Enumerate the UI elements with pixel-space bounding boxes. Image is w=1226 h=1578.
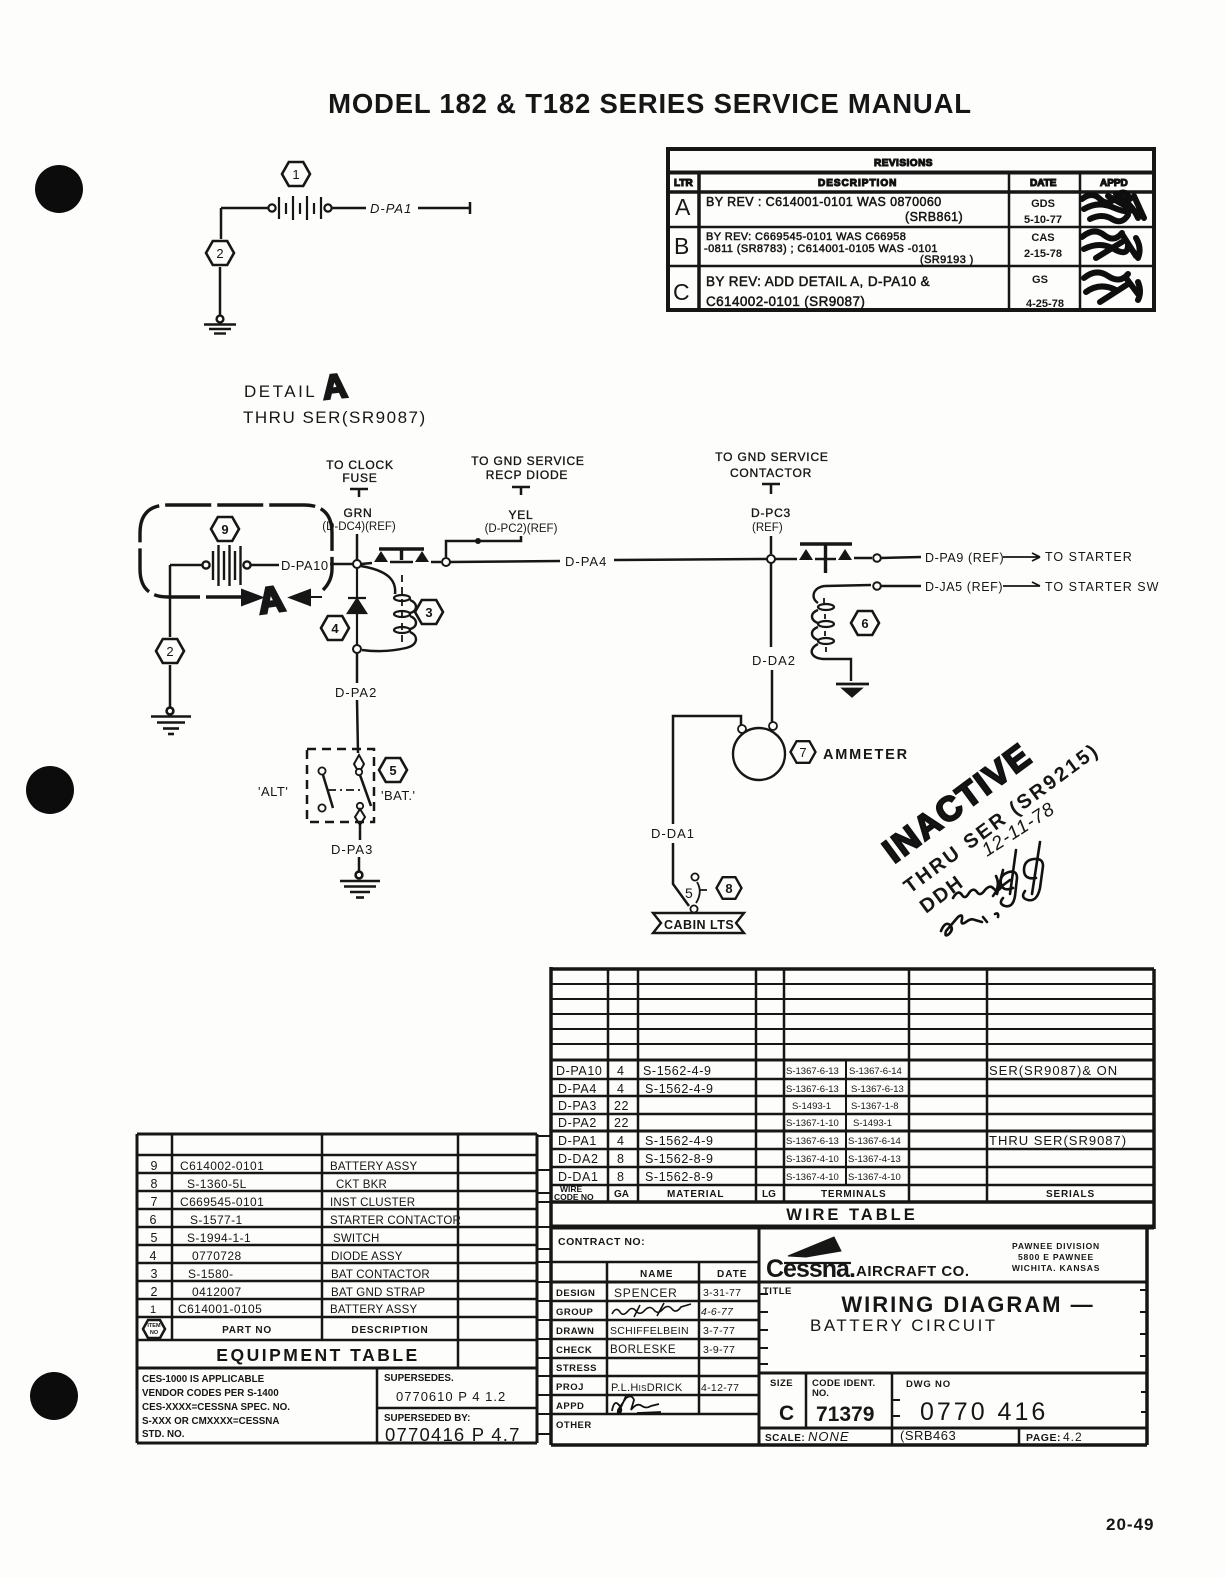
diode assy item 4 xyxy=(348,568,366,645)
svg-text:B: B xyxy=(674,233,689,259)
svg-text:TO STARTER: TO STARTER xyxy=(1045,550,1133,564)
svg-text:(SR9193 ): (SR9193 ) xyxy=(920,254,974,266)
svg-text:TITLE: TITLE xyxy=(763,1286,792,1297)
svg-text:S-1367-1-8: S-1367-1-8 xyxy=(851,1101,899,1112)
ground (switch) xyxy=(340,872,380,898)
wire D-PA4 xyxy=(450,559,767,562)
svg-text:D-DA2: D-DA2 xyxy=(558,1152,599,1166)
item flag 8 xyxy=(717,877,742,899)
node junction D-PA10/D-PA4 xyxy=(353,560,361,568)
svg-text:DWG NO: DWG NO xyxy=(906,1379,951,1390)
svg-text:ITEM: ITEM xyxy=(147,1323,161,1329)
svg-text:71379: 71379 xyxy=(816,1403,874,1426)
svg-text:BY REV : C614001-0101 WAS 08: BY REV : C614001-0101 WAS 0870060 xyxy=(706,195,942,209)
item flag 4 xyxy=(321,616,349,640)
svg-text:9: 9 xyxy=(151,1159,158,1173)
svg-text:C614002-0101 (SR9087): C614002-0101 (SR9087) xyxy=(706,294,865,309)
svg-text:5800 E PAWNEE: 5800 E PAWNEE xyxy=(1018,1252,1094,1262)
wire D-PA2 xyxy=(357,653,358,753)
svg-text:1: 1 xyxy=(292,167,299,182)
svg-text:D-PA3: D-PA3 xyxy=(558,1099,597,1113)
wire ammeter to D-DA1 xyxy=(673,716,741,906)
svg-text:-0811 (SR8783) ; C614001-0105: -0811 (SR8783) ; C614001-0105 WAS -0101 xyxy=(704,243,938,255)
battery assy item 9 xyxy=(202,545,250,586)
svg-text:1: 1 xyxy=(150,1304,156,1316)
starter coil xyxy=(814,586,825,603)
svg-text:C: C xyxy=(673,279,690,305)
svg-text:2: 2 xyxy=(166,644,173,659)
svg-text:4: 4 xyxy=(617,1064,625,1078)
svg-text:A: A xyxy=(675,194,691,220)
equipment header xyxy=(222,1325,429,1336)
svg-text:MATERIAL: MATERIAL xyxy=(667,1189,724,1200)
wire D-DA2 xyxy=(771,563,772,722)
svg-text:S-1367-4-13: S-1367-4-13 xyxy=(848,1154,901,1165)
svg-text:FUSE: FUSE xyxy=(342,471,377,485)
svg-text:(REF): (REF) xyxy=(752,522,783,534)
svg-text:DRAWN: DRAWN xyxy=(556,1326,594,1337)
punch hole bottom xyxy=(30,1372,78,1420)
svg-text:CODE NO: CODE NO xyxy=(554,1192,594,1202)
svg-text:CES-XXXX=CESSNA SPEC. NO.: CES-XXXX=CESSNA SPEC. NO. xyxy=(142,1402,290,1413)
wire table header row xyxy=(554,1184,594,1202)
svg-text:OTHER: OTHER xyxy=(556,1420,592,1431)
svg-text:CES-1000 IS APPLICABLE: CES-1000 IS APPLICABLE xyxy=(142,1374,265,1385)
svg-text:GDS: GDS xyxy=(1031,198,1055,210)
ground (top-left) xyxy=(204,316,236,334)
svg-text:CKT BKR: CKT BKR xyxy=(336,1179,387,1191)
svg-text:8: 8 xyxy=(617,1170,625,1184)
svg-text:SCHIFFELBEIN: SCHIFFELBEIN xyxy=(610,1325,689,1337)
svg-text:9: 9 xyxy=(221,522,228,537)
svg-text:DATE: DATE xyxy=(1030,178,1057,189)
svg-text:2: 2 xyxy=(216,246,223,261)
node D-PA4/D-DA2 junction xyxy=(767,555,775,563)
wire down to flag 2b xyxy=(169,565,172,637)
svg-text:D-PA4: D-PA4 xyxy=(558,1082,597,1096)
svg-text:INST CLUSTER: INST CLUSTER xyxy=(330,1197,415,1209)
ammeter xyxy=(733,728,785,780)
svg-text:BAT CONTACTOR: BAT CONTACTOR xyxy=(331,1269,430,1281)
svg-text:0412007: 0412007 xyxy=(192,1285,242,1299)
svg-text:D-PA4: D-PA4 xyxy=(565,554,607,569)
wire D-JA5 xyxy=(881,585,921,588)
svg-text:GRN: GRN xyxy=(343,506,372,520)
svg-text:S-1493-1: S-1493-1 xyxy=(853,1118,892,1129)
svg-text:SUPERSEDES.: SUPERSEDES. xyxy=(384,1373,454,1384)
stamp date 12-11-78 xyxy=(978,799,1059,862)
wire flag2 to ground xyxy=(219,267,222,316)
svg-text:Cessna.: Cessna. xyxy=(766,1255,855,1283)
item flag 6 xyxy=(851,611,879,635)
svg-text:D-PA10: D-PA10 xyxy=(281,558,329,573)
node cabin terminal xyxy=(690,905,697,912)
appd scribbles xyxy=(1082,192,1144,302)
wire corner down to flag 2 xyxy=(220,208,223,239)
svg-text:S-1367-6-13: S-1367-6-13 xyxy=(786,1136,839,1147)
svg-text:8: 8 xyxy=(725,881,732,896)
svg-text:S-XXX OR CMXXXX=CESSNA: S-XXX OR CMXXXX=CESSNA xyxy=(142,1416,279,1427)
name table labels xyxy=(556,1288,597,1431)
svg-text:S-1367-6-13: S-1367-6-13 xyxy=(851,1084,904,1095)
detail boundary dashed box xyxy=(140,505,332,597)
svg-text:D-PA1: D-PA1 xyxy=(558,1134,597,1148)
svg-text:5-10-77: 5-10-77 xyxy=(1024,214,1062,226)
svg-text:22: 22 xyxy=(614,1116,629,1130)
svg-text:S-1562-8-9: S-1562-8-9 xyxy=(645,1170,714,1184)
svg-text:DESIGN: DESIGN xyxy=(556,1288,595,1299)
svg-text:CHECK: CHECK xyxy=(556,1345,592,1356)
svg-text:3-7-77: 3-7-77 xyxy=(703,1325,735,1337)
Cessna logo xyxy=(766,1237,855,1283)
date entries xyxy=(701,1287,741,1394)
svg-text:P.L.HISDRICK: P.L.HISDRICK xyxy=(611,1382,683,1394)
svg-text:6: 6 xyxy=(150,1213,157,1227)
svg-text:GA: GA xyxy=(614,1189,629,1200)
svg-text:STRESS: STRESS xyxy=(556,1363,597,1374)
svg-text:BATTERY ASSY: BATTERY ASSY xyxy=(330,1304,418,1316)
svg-text:S-1562-8-9: S-1562-8-9 xyxy=(645,1152,714,1166)
detail marker arrow right xyxy=(218,590,262,605)
svg-text:C: C xyxy=(779,1402,794,1425)
svg-text:YEL: YEL xyxy=(508,508,533,522)
svg-text:D-PA3: D-PA3 xyxy=(331,842,373,857)
svg-text:S-1493-1: S-1493-1 xyxy=(792,1101,831,1112)
svg-text:4-6-77: 4-6-77 xyxy=(701,1306,734,1318)
starter contactor arrow right xyxy=(838,549,852,560)
svg-text:6: 6 xyxy=(861,616,868,631)
stamp signatures xyxy=(941,842,1043,935)
svg-text:BATTERY CIRCUIT: BATTERY CIRCUIT xyxy=(810,1316,998,1335)
svg-text:MODEL 182 & T182 SERIES SERVIC: MODEL 182 & T182 SERIES SERVICE MANUAL xyxy=(328,88,972,119)
switch link dash-dot xyxy=(328,789,362,791)
svg-text:AIRCRAFT CO.: AIRCRAFT CO. xyxy=(856,1263,970,1280)
svg-text:CAS: CAS xyxy=(1031,232,1054,244)
svg-text:NO.: NO. xyxy=(812,1388,829,1399)
svg-text:BY REV: ADD DETAIL A, D-PA10: BY REV: ADD DETAIL A, D-PA10 & xyxy=(706,274,930,289)
svg-text:WICHITA. KANSAS: WICHITA. KANSAS xyxy=(1012,1263,1100,1273)
terminal 5 marker xyxy=(691,873,698,880)
switch left pole contacts xyxy=(318,767,325,774)
svg-text:0770416 P 4.7: 0770416 P 4.7 xyxy=(385,1424,521,1445)
svg-text:STD. NO.: STD. NO. xyxy=(142,1429,185,1440)
punch hole top xyxy=(35,165,83,213)
svg-text:D-PA10: D-PA10 xyxy=(556,1064,602,1078)
item flag 2b xyxy=(156,639,184,663)
svg-text:S-1367-6-13: S-1367-6-13 xyxy=(786,1066,839,1077)
svg-text:PAWNEE DIVISION: PAWNEE DIVISION xyxy=(1012,1241,1100,1251)
svg-text:THRU SER(SR9087): THRU SER(SR9087) xyxy=(243,408,427,427)
svg-text:4.2: 4.2 xyxy=(1063,1430,1083,1444)
svg-text:S-1562-4-9: S-1562-4-9 xyxy=(643,1064,712,1078)
svg-text:WIRING DIAGRAM —: WIRING DIAGRAM — xyxy=(841,1292,1094,1317)
wire GRN down to junction xyxy=(356,534,359,560)
clock fuse tail xyxy=(350,489,368,497)
item flag 2 xyxy=(206,241,234,265)
svg-text:8: 8 xyxy=(151,1177,158,1191)
svg-text:LTR: LTR xyxy=(674,178,693,189)
svg-text:SER(SR9087)& ON: SER(SR9087)& ON xyxy=(989,1063,1118,1078)
svg-text:TO STARTER SW: TO STARTER SW xyxy=(1045,580,1159,594)
vendor notes xyxy=(142,1374,290,1440)
wire junction to starter contactor xyxy=(775,558,872,559)
svg-text:TO GND SERVICE: TO GND SERVICE xyxy=(715,450,828,464)
battery assy item 1 xyxy=(268,196,331,220)
svg-text:0770 416: 0770 416 xyxy=(920,1398,1048,1426)
svg-text:D-PA2: D-PA2 xyxy=(558,1116,597,1130)
wire D-PA3 xyxy=(359,825,360,871)
starter contactor arrow left xyxy=(799,549,813,560)
appd signature xyxy=(612,1396,661,1414)
svg-text:WIRE TABLE: WIRE TABLE xyxy=(786,1206,917,1224)
svg-text:SCALE:: SCALE: xyxy=(765,1433,805,1444)
cabin lts banner xyxy=(653,913,744,933)
svg-text:NAME: NAME xyxy=(640,1269,673,1280)
svg-text:TO GND SERVICE: TO GND SERVICE xyxy=(471,454,584,468)
svg-text:GS: GS xyxy=(1032,274,1048,286)
bat contactor coil xyxy=(361,566,395,594)
svg-text:D-DA2: D-DA2 xyxy=(752,653,796,668)
item flag 7 xyxy=(791,741,816,763)
svg-text:TO CLOCK: TO CLOCK xyxy=(326,458,394,472)
wire junction to contactor xyxy=(361,562,441,564)
svg-text:A: A xyxy=(256,578,287,622)
svg-text:A: A xyxy=(321,367,349,407)
stamp thru ser xyxy=(900,739,1104,898)
svg-text:4: 4 xyxy=(617,1082,625,1096)
svg-text:C614002-0101: C614002-0101 xyxy=(180,1159,264,1173)
svg-text:D-DA1: D-DA1 xyxy=(558,1170,599,1184)
wire D-PA1 xyxy=(332,202,470,214)
svg-text:DETAIL: DETAIL xyxy=(244,382,317,401)
wire D-PC3 down to junction xyxy=(770,536,773,554)
svg-text:(D-PC2)(REF): (D-PC2)(REF) xyxy=(485,523,558,535)
item flag 5 xyxy=(379,758,407,782)
svg-text:(SRB861): (SRB861) xyxy=(905,210,963,224)
svg-text:BORLESKE: BORLESKE xyxy=(610,1344,676,1356)
svg-text:4: 4 xyxy=(617,1134,625,1148)
node contactor output xyxy=(442,558,450,566)
svg-text:APPD: APPD xyxy=(556,1401,584,1412)
svg-text:S-1367-4-10: S-1367-4-10 xyxy=(786,1154,839,1165)
item flag 1 xyxy=(282,162,310,186)
gnd service contactor tail xyxy=(762,484,780,494)
svg-text:S-1994-1-1: S-1994-1-1 xyxy=(187,1231,251,1245)
wire D-JA5 from coil top xyxy=(825,585,871,586)
svg-text:0770610 P 4 1.2: 0770610 P 4 1.2 xyxy=(396,1389,506,1404)
node bottom junction xyxy=(353,645,361,653)
svg-text:S-1367-1-10: S-1367-1-10 xyxy=(786,1118,839,1129)
svg-text:8: 8 xyxy=(617,1152,625,1166)
svg-text:D-PA9 (REF): D-PA9 (REF) xyxy=(925,551,1004,565)
svg-text:D-PC3: D-PC3 xyxy=(751,506,791,520)
stamp DDH xyxy=(916,871,969,918)
svg-text:4-25-78: 4-25-78 xyxy=(1026,298,1064,310)
starter contactor bar xyxy=(800,544,852,573)
svg-text:D-PA1: D-PA1 xyxy=(370,201,412,216)
junction dot on YEL jog xyxy=(475,538,481,544)
item flag 9 xyxy=(211,517,239,541)
svg-text:BAT GND STRAP: BAT GND STRAP xyxy=(331,1287,425,1299)
svg-text:S-1562-4-9: S-1562-4-9 xyxy=(645,1134,714,1148)
svg-text:REVISIONS: REVISIONS xyxy=(874,158,933,169)
svg-text:3: 3 xyxy=(425,605,432,620)
svg-text:S-1360-5L: S-1360-5L xyxy=(187,1177,247,1191)
bat contactor arrow right xyxy=(415,551,429,562)
svg-text:5: 5 xyxy=(389,763,396,778)
svg-text:3: 3 xyxy=(151,1267,158,1281)
svg-text:4-12-77: 4-12-77 xyxy=(701,1382,739,1394)
svg-text:S-1580-: S-1580- xyxy=(188,1267,234,1281)
wire battery9 right to junction xyxy=(251,564,353,565)
svg-text:5: 5 xyxy=(685,885,693,901)
switch left blade xyxy=(323,775,333,808)
pawnee division xyxy=(1012,1241,1100,1273)
switch blade right xyxy=(360,775,371,806)
svg-text:'BAT.': 'BAT.' xyxy=(381,788,415,803)
svg-text:SUPERSEDED BY:: SUPERSEDED BY: xyxy=(384,1413,470,1424)
svg-text:DESCRIPTION: DESCRIPTION xyxy=(351,1325,428,1336)
svg-text:'ALT': 'ALT' xyxy=(258,784,288,799)
switch dashed box xyxy=(307,749,374,822)
svg-text:C614001-0105: C614001-0105 xyxy=(178,1302,262,1316)
ground (starter coil) xyxy=(836,684,869,696)
svg-text:3-31-77: 3-31-77 xyxy=(703,1287,741,1299)
switch bottom terminal xyxy=(357,803,363,809)
bat contactor arrow left xyxy=(374,551,388,562)
svg-text:7: 7 xyxy=(799,745,806,760)
wire battery9 left xyxy=(170,564,202,567)
svg-text:NONE: NONE xyxy=(808,1429,850,1444)
bat contactor bar xyxy=(379,549,424,560)
svg-text:AMMETER: AMMETER xyxy=(823,747,909,763)
svg-text:APPD: APPD xyxy=(1100,178,1128,189)
svg-text:GROUP: GROUP xyxy=(556,1307,594,1318)
svg-text:DESCRIPTION: DESCRIPTION xyxy=(818,178,897,189)
svg-text:5: 5 xyxy=(151,1231,158,1245)
equipment table items xyxy=(150,1159,158,1316)
svg-text:D-PA2: D-PA2 xyxy=(335,685,377,700)
svg-text:3-9-77: 3-9-77 xyxy=(703,1344,735,1356)
svg-text:DIODE ASSY: DIODE ASSY xyxy=(331,1251,403,1263)
svg-text:4: 4 xyxy=(331,621,339,636)
bat contactor coil core xyxy=(401,575,403,645)
svg-text:S-1367-6-13: S-1367-6-13 xyxy=(786,1084,839,1095)
detail marker arrow left xyxy=(290,590,322,605)
svg-text:7: 7 xyxy=(151,1195,158,1209)
svg-text:PROJ: PROJ xyxy=(556,1382,584,1393)
svg-text:DATE: DATE xyxy=(717,1269,747,1280)
wire table data xyxy=(556,1064,714,1184)
node D-PA9 terminal xyxy=(873,554,881,562)
svg-text:2-15-78: 2-15-78 xyxy=(1024,248,1062,260)
svg-text:TERMINALS: TERMINALS xyxy=(821,1189,887,1200)
svg-text:LG: LG xyxy=(762,1189,776,1200)
name entries xyxy=(610,1286,689,1394)
node D-JA5 terminal xyxy=(873,582,881,590)
equipment-table overshoot ticks xyxy=(538,1135,551,1137)
svg-text:SPENCER: SPENCER xyxy=(614,1286,678,1300)
svg-text:SWITCH: SWITCH xyxy=(333,1233,380,1245)
svg-text:NO: NO xyxy=(150,1330,159,1336)
svg-text:S-1367-4-10: S-1367-4-10 xyxy=(848,1172,901,1183)
group signature xyxy=(612,1303,691,1317)
svg-text:D-DA1: D-DA1 xyxy=(651,826,695,841)
svg-text:S-1367-6-14: S-1367-6-14 xyxy=(849,1066,902,1077)
svg-text:C669545-0101: C669545-0101 xyxy=(180,1195,264,1209)
svg-text:CONTACTOR: CONTACTOR xyxy=(730,466,812,480)
svg-text:(SRB463: (SRB463 xyxy=(900,1428,956,1443)
svg-text:STARTER CONTACTOR: STARTER CONTACTOR xyxy=(330,1215,461,1227)
svg-text:CONTRACT NO:: CONTRACT NO: xyxy=(558,1236,645,1248)
svg-text:(D-DC4)(REF): (D-DC4)(REF) xyxy=(322,521,396,533)
punch hole middle xyxy=(26,766,74,814)
svg-text:S-1367-4-10: S-1367-4-10 xyxy=(786,1172,839,1183)
svg-text:4: 4 xyxy=(150,1249,157,1263)
svg-text:EQUIPMENT TABLE: EQUIPMENT TABLE xyxy=(216,1345,419,1365)
recp diode tail xyxy=(512,487,530,495)
ground (detail A) xyxy=(151,708,191,734)
switch top terminal xyxy=(354,755,364,773)
svg-text:2: 2 xyxy=(151,1285,158,1299)
wire YEL jog to contactor output xyxy=(446,536,521,557)
svg-text:PART NO: PART NO xyxy=(222,1325,272,1336)
svg-text:0770728: 0770728 xyxy=(192,1249,242,1263)
svg-text:D-JA5 (REF): D-JA5 (REF) xyxy=(925,580,1003,594)
svg-text:SIZE: SIZE xyxy=(770,1378,793,1389)
svg-text:VENDOR CODES PER S-1400: VENDOR CODES PER S-1400 xyxy=(142,1388,279,1399)
item flag 3 xyxy=(415,600,443,624)
svg-text:RECP DIODE: RECP DIODE xyxy=(486,468,568,482)
svg-text:20-49: 20-49 xyxy=(1106,1515,1154,1534)
stamp INACTIVE xyxy=(876,736,1039,870)
svg-text:S-1367-6-14: S-1367-6-14 xyxy=(848,1136,901,1147)
svg-text:22: 22 xyxy=(614,1099,629,1113)
svg-text:BY REV: C669545-0101 WAS C: BY REV: C669545-0101 WAS C66958 xyxy=(706,231,906,243)
binding tick marks title band xyxy=(760,1293,768,1295)
detail marker letter A xyxy=(256,578,287,622)
wire D-PA9 xyxy=(881,557,921,558)
wire flag2b to ground xyxy=(169,665,172,708)
svg-text:PAGE:: PAGE: xyxy=(1026,1432,1061,1444)
svg-text:S-1562-4-9: S-1562-4-9 xyxy=(645,1082,714,1096)
svg-text:THRU SER(SR9087): THRU SER(SR9087) xyxy=(989,1133,1127,1148)
wire battery left to corner xyxy=(221,207,268,210)
svg-text:CABIN LTS: CABIN LTS xyxy=(664,918,734,932)
svg-text:S-1577-1: S-1577-1 xyxy=(190,1213,243,1227)
svg-text:BATTERY ASSY: BATTERY ASSY xyxy=(330,1161,418,1173)
svg-text:SERIALS: SERIALS xyxy=(1046,1189,1095,1200)
item no hexagon xyxy=(143,1320,165,1338)
